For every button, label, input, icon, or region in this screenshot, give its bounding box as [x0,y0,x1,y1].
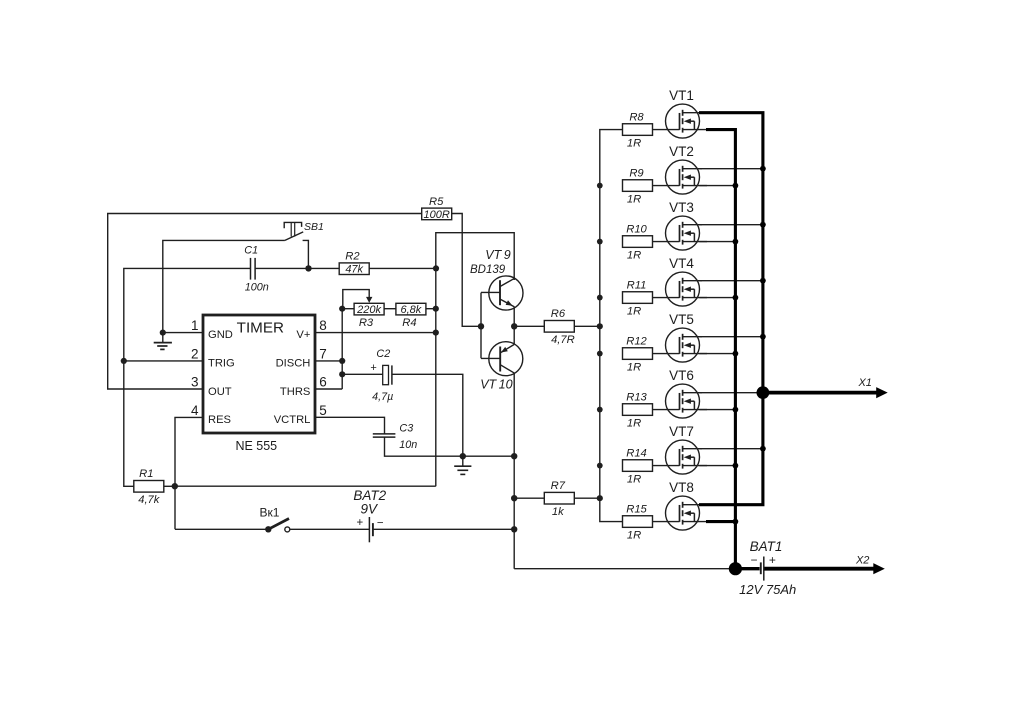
svg-text:4,7µ: 4,7µ [372,391,393,403]
svg-text:VT7: VT7 [669,424,694,439]
svg-text:+: + [769,553,776,567]
wire: X2 output with arrow [764,555,884,575]
svg-text:VT5: VT5 [669,312,694,327]
svg-text:V+: V+ [296,329,310,341]
svg-text:4: 4 [191,403,199,418]
svg-text:VT3: VT3 [669,200,694,215]
svg-text:X1: X1 [857,377,871,389]
svg-text:1R: 1R [627,417,641,429]
wire: VT4 source lead to inner bus [699,297,735,299]
node: SB1/C1/R2 junction [305,265,311,271]
svg-text:6,8k: 6,8k [401,304,422,316]
node: gate bus junction R10 [597,239,603,245]
svg-text:4,7R: 4,7R [551,334,575,346]
wire: VT10 emitter up to output node [513,326,515,344]
wire: RES node to V+ rail bottom [175,485,436,487]
svg-text:R4: R4 [402,317,416,329]
transistor VT5 (MOSFET) [666,312,708,362]
resistor R10 1R [623,223,653,261]
pin numbers 8-5 [319,318,327,418]
node: V+/R4 junction [433,306,439,312]
node: R7 junction [511,495,517,501]
svg-text:47k: 47k [345,264,363,276]
svg-text:R15: R15 [626,503,647,515]
wire: R13 gate lead [653,409,680,411]
svg-text:R2: R2 [345,251,360,263]
wire: pin8 V+ stub [315,332,436,334]
wire: R5 output down to driver base node [452,214,481,327]
svg-text:VT1: VT1 [669,88,694,103]
svg-text:1R: 1R [627,529,641,541]
wire: R4 to V+ rail [426,308,436,310]
svg-text:VT4: VT4 [669,256,694,271]
node: base drive junction [478,323,484,329]
svg-text:R14: R14 [626,447,647,459]
svg-text:100n: 100n [245,281,269,293]
svg-text:1k: 1k [552,506,565,518]
svg-text:VT8: VT8 [669,480,694,495]
ground symbol at pin1 [154,333,172,350]
node: BAT2 minus junction [511,526,517,532]
wire: VT3 source lead to inner bus [699,241,735,243]
transistor Q VT9 BD139 (NPN) [470,248,523,310]
svg-text:C2: C2 [376,348,390,360]
resistor R13 1R [623,391,653,429]
wire: C2 right down to ground node [392,374,463,456]
svg-text:C3: C3 [399,422,413,434]
svg-text:VT6: VT6 [669,368,694,383]
transistor VT7 (MOSFET) [666,424,708,474]
resistor R2 47k [339,251,369,276]
pushbutton SB1 [284,221,324,269]
wire: R3-R4 link [384,308,397,310]
resistor R11 1R [623,279,653,317]
svg-text:12V 75Ah: 12V 75Ah [739,582,796,597]
svg-text:GND: GND [208,329,233,341]
capacitor C3 10n [373,422,418,451]
wire: negative rail to BAT1 node [514,568,735,570]
node: gate bus junction R14 [597,463,603,469]
wire: VT5 drain lead to outer bus [699,336,763,338]
wire: R3-left vertical (DISCH/THRS/C2) [341,309,343,389]
svg-text:BD139: BD139 [470,264,506,276]
wire: C1 right to R2 [255,267,340,269]
wire: VT9 emitter down to output node [513,306,515,326]
wire: VT10 collector down / negative vertical [513,373,515,569]
transistor VT6 (MOSFET) [666,368,708,418]
pin numbers 1-4 [191,318,199,418]
wire: TRIG vertical (C1 left / pin2 / R1 left) [124,268,251,486]
wire: V+ rail vertical with bend to VT9 collector [436,233,514,487]
wire: BAT1 node to battery [735,567,759,570]
node: R3 left junction [339,306,345,312]
wire: R6 to gate bus [574,325,600,327]
node: DISCH junction [339,358,345,364]
node: X1 big junction [757,386,770,399]
svg-text:R11: R11 [627,279,647,291]
resistor R7 1k [544,480,574,518]
resistor R1 4,7k [134,468,164,506]
svg-text:R10: R10 [626,223,647,235]
svg-text:VCTRL: VCTRL [274,414,311,426]
wire: VT2 source lead to inner bus [699,185,735,187]
svg-text:1R: 1R [627,473,641,485]
capacitor C1 100n [244,244,269,293]
node: ground junction [460,453,466,459]
node: V+/pin8 junction [433,330,439,336]
svg-text:1: 1 [191,318,199,333]
wire: R12 gate lead [653,353,680,355]
svg-text:R5: R5 [429,196,444,208]
node: inner bus junction VT7 [733,463,739,469]
wire: VT3 drain lead to outer bus [699,224,763,226]
svg-text:C1: C1 [244,244,258,256]
potentiometer R3 220k [342,290,384,330]
svg-text:R7: R7 [551,480,566,492]
svg-text:R8: R8 [629,111,644,123]
wire: driver bases vertical [480,293,482,359]
svg-text:Вк1: Вк1 [260,505,280,519]
node: V+/R2 junction [433,265,439,271]
node: outer bus junction VT4 [760,278,766,284]
node: outer bus junction VT2 [760,166,766,172]
svg-text:1R: 1R [627,305,641,317]
wire: BAT2 minus to negative vertical [373,528,514,530]
svg-text:5: 5 [319,403,327,418]
resistor R12 1R [623,335,653,373]
op-amp U1: NE555 timer box [203,315,315,433]
wire: X1 output with arrow [763,377,888,398]
svg-text:1R: 1R [627,361,641,373]
svg-text:TRIG: TRIG [208,358,235,370]
wire: R11 gate lead [653,297,680,299]
svg-text:VT 10: VT 10 [480,377,512,391]
node: inner bus junction VT3 [733,239,739,245]
node: gate bus junction R9 [597,183,603,189]
svg-text:SB1: SB1 [304,221,324,233]
node: gate bus junction R12 [597,351,603,357]
wire: R1 right lead [164,485,175,487]
wire: VCTRL pin5 to C3 [315,417,385,434]
resistor R14 1R [623,447,653,485]
svg-text:6: 6 [319,375,327,390]
svg-text:TIMER: TIMER [237,319,284,336]
wire: gate bus vertical [600,130,623,522]
svg-text:9V: 9V [361,502,380,517]
node: BAT1 big junction [729,562,742,575]
ground symbol at C3/C2 [454,456,471,474]
wire: thick source bus (VT1 bottom to BAT1) [706,130,735,569]
battery BAT1 12V 75Ah [739,539,796,597]
node: R6/gate-bus junction [597,323,603,329]
node: collector/ground-line junction [511,453,517,459]
resistor R8 1R [623,111,653,149]
transistor VT2 (MOSFET) [666,144,708,194]
resistor R15 1R [623,503,653,541]
wire: R9 gate lead [653,185,680,187]
wire: DISCH pin7 stub [315,360,342,362]
svg-text:R13: R13 [626,391,647,403]
svg-text:X2: X2 [855,555,869,567]
wire: VT4 drain lead to outer bus [699,280,763,282]
wire: C3 bottom to VT10 collector line [385,437,515,456]
svg-text:R6: R6 [551,308,566,320]
svg-text:100R: 100R [424,209,450,221]
svg-text:3: 3 [191,375,199,390]
wire: R15 gate lead [653,521,680,523]
svg-text:R12: R12 [626,335,647,347]
wire: VT8 thick source lead [706,520,735,523]
wire: R7 to gate bus [574,497,600,499]
transistor VT3 (MOSFET) [666,200,708,250]
node: R7/gate-bus junction [597,495,603,501]
resistor R9 1R [623,167,653,205]
wire: VT2 drain lead to outer bus [699,168,763,170]
wire: TRIG pin2 stub [124,360,203,362]
svg-text:1R: 1R [627,249,641,261]
wire: R2 to V+ rail [369,267,436,269]
wire: output node to R6 [514,325,544,327]
wire: R7 left lead [514,497,544,499]
battery BAT2 9V [353,488,386,542]
transistor VT8 (MOSFET) [666,480,708,530]
wire: VT5 source lead to inner bus [699,353,735,355]
capacitor C2 4,7u electrolytic [370,348,393,403]
svg-text:BAT1: BAT1 [750,539,783,554]
wire: SB1 feed from GND pin1 [163,240,285,332]
svg-text:8: 8 [319,318,327,333]
svg-text:2: 2 [191,347,199,362]
pin labels left [208,329,235,426]
wire: thick drain bus (VT1 top to VT8) [699,113,763,505]
svg-text:−: − [750,553,757,567]
svg-text:RES: RES [208,414,231,426]
wire: R10 gate lead [653,241,680,243]
node: outer bus junction VT3 [760,222,766,228]
resistor R4 6,8k [396,303,426,329]
svg-text:VT2: VT2 [669,144,694,159]
wire: OUT pin3 left vertical and top run to R5 [108,214,422,390]
svg-text:THRS: THRS [280,386,310,398]
transistor VT4 (MOSFET) [666,256,708,306]
svg-text:220k: 220k [356,304,381,316]
node: inner bus junction VT6 [733,407,739,413]
svg-text:R9: R9 [629,167,643,179]
wire: R1 node down to switch [175,528,266,530]
node: outer bus junction VT5 [760,334,766,340]
node: TRIG junction [121,358,127,364]
svg-text:1R: 1R [627,193,641,205]
wire: R8 gate lead [653,129,680,131]
svg-text:1R: 1R [627,137,641,149]
resistor R6 4,7R [544,308,574,346]
wire: VT6 drain lead to outer bus [699,392,763,394]
wire: VT7 drain lead to outer bus [699,448,763,450]
pin labels right [274,329,311,426]
svg-text:7: 7 [319,347,327,362]
wire: RES pin4 down to R1 node [175,417,203,529]
transistor VT1 (MOSFET) [666,88,708,138]
svg-text:R1: R1 [139,468,153,480]
svg-text:10n: 10n [399,439,417,451]
svg-text:NE 555: NE 555 [235,439,277,453]
svg-text:DISCH: DISCH [276,358,311,370]
svg-text:+: + [357,517,364,529]
node: inner bus junction VT2 [733,183,739,189]
node: R1/RES junction [172,483,178,489]
node: inner bus junction VT4 [733,295,739,301]
svg-text:−: − [377,518,384,530]
svg-text:OUT: OUT [208,386,232,398]
node: C2 junction [339,371,345,377]
node: outer bus junction VT7 [760,446,766,452]
wire: R14 gate lead [653,465,680,467]
node: emitter output junction [511,323,517,329]
node: inner bus junction VT8 [733,519,739,525]
node: gate bus junction R13 [597,407,603,413]
switch Bk1 [260,505,290,532]
svg-text:+: + [370,362,376,374]
node: gate bus junction R11 [597,295,603,301]
wire: VT6 source lead to inner bus [699,409,735,411]
node: inner bus junction VT5 [733,351,739,357]
wire: VT7 source lead to inner bus [699,465,735,467]
svg-text:VT 9: VT 9 [485,248,510,262]
svg-text:4,7k: 4,7k [138,494,161,506]
wire: C2 left lead [342,373,383,375]
svg-text:R3: R3 [359,317,374,329]
wire: switch to BAT2 [290,528,370,530]
transistor Q VT10 (PNP) [480,342,523,392]
node: GND pin1 junction [160,330,166,336]
wire: THRS pin6 stub [315,388,342,390]
resistor R5 100R [422,196,452,221]
